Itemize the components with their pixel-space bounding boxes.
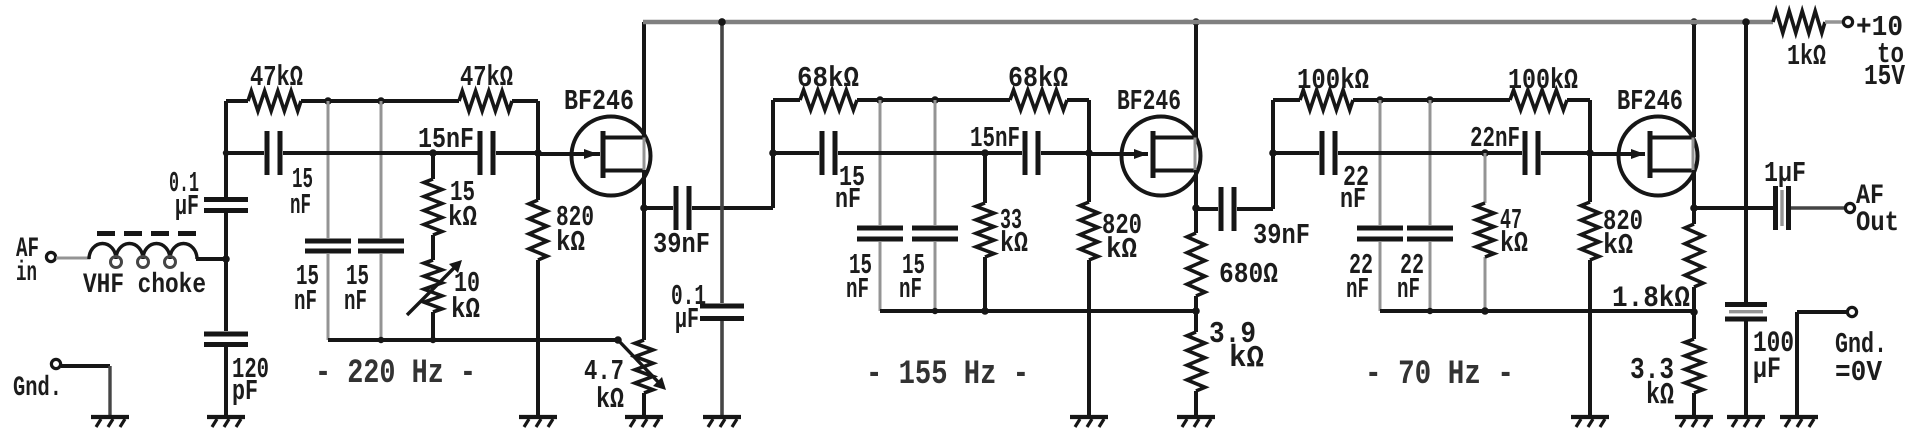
svg-text:µF: µF: [1753, 353, 1781, 387]
wire source1 down: [642, 208, 646, 340]
svg-text:- 155 Hz -: - 155 Hz -: [866, 356, 1029, 394]
capacitor 39nF a: [653, 186, 710, 261]
svg-text:680Ω: 680Ω: [1219, 258, 1278, 291]
wire 39nF b left: [1196, 207, 1218, 211]
label 0.1uF decoupling: [671, 280, 706, 336]
svg-text:Gnd.: Gnd.: [13, 373, 62, 404]
svg-text:- 70 Hz -: - 70 Hz -: [1365, 356, 1514, 394]
capacitor 22nF series a: [1320, 131, 1370, 216]
svg-text:kΩ: kΩ: [1603, 229, 1633, 262]
node rail3 b: [1426, 96, 1434, 104]
node 47k bottom: [1481, 307, 1489, 315]
wire 820k stage3: [1588, 100, 1592, 415]
capacitor 120pF: [204, 332, 248, 348]
capacitor 1uF: [1764, 157, 1806, 230]
node rail2 b: [931, 96, 939, 104]
label -155Hz-: [866, 356, 1029, 394]
wire gate1: [538, 152, 600, 156]
capacitor 100uF: [1725, 302, 1767, 322]
node 33k top: [981, 149, 989, 157]
svg-text:15V: 15V: [1864, 60, 1905, 93]
resistor 47k b: [459, 61, 513, 111]
capacitor 15nF shunt a: [305, 239, 351, 254]
ground 120pF: [207, 417, 245, 427]
ground 820k stage2: [1070, 417, 1108, 427]
stage2 bottom rail: [880, 308, 1196, 314]
svg-text:nF: nF: [835, 183, 861, 216]
wire shunt branch1 b: [380, 101, 383, 340]
label Gnd =0V: [1835, 328, 1887, 389]
svg-text:kΩ: kΩ: [451, 293, 480, 326]
label 22nF shunt a: [1346, 249, 1373, 306]
svg-text:kΩ: kΩ: [1229, 341, 1264, 376]
wire gnd terminal: [61, 366, 110, 415]
node 680 bottom: [1192, 307, 1200, 315]
wire gnd 0V: [1797, 312, 1847, 415]
node rail1 b: [377, 97, 385, 105]
svg-text:nF: nF: [294, 285, 317, 318]
wire 33k branch: [983, 153, 987, 311]
node gate2: [1085, 149, 1093, 157]
resistor 47k shunt: [1476, 203, 1528, 260]
node rail3 a: [1376, 96, 1384, 104]
wire shunt branch1 a: [327, 101, 330, 340]
capacitor 0.1uF input: [204, 197, 248, 213]
svg-text:kΩ: kΩ: [596, 383, 624, 416]
node drain2 rail: [1192, 18, 1200, 26]
svg-text:1µF: 1µF: [1764, 157, 1806, 190]
svg-text:15nF: 15nF: [418, 123, 474, 156]
ground 4.7k: [625, 417, 663, 427]
stage2 signal wire: [773, 151, 1089, 155]
capacitor 15nF shunt d: [912, 226, 958, 242]
label AF Out: [1856, 181, 1899, 239]
stage2 top rail: [773, 98, 1089, 102]
svg-text:1.8kΩ: 1.8kΩ: [1612, 282, 1690, 316]
capacitor 15nF series d: [970, 122, 1041, 175]
svg-text:15nF: 15nF: [970, 122, 1020, 155]
resistor 100k a: [1297, 64, 1369, 110]
label 15nF shunt a: [294, 260, 319, 318]
ground 820k stage1: [519, 417, 557, 427]
label BF246 Q2: [1117, 85, 1181, 118]
capacitor 15nF series a: [265, 131, 314, 222]
ground 100uF: [1727, 417, 1765, 427]
resistor 1k: [1773, 11, 1843, 73]
capacitor 39nF b: [1219, 187, 1311, 252]
label -220Hz-: [315, 355, 476, 393]
svg-text:nF: nF: [344, 285, 367, 318]
resistor 820k stage1: [529, 200, 594, 260]
node source1: [640, 204, 648, 212]
supply rail: [643, 20, 1773, 24]
label -70Hz-: [1365, 356, 1514, 394]
node choke junction: [222, 150, 230, 263]
svg-text:68kΩ: 68kΩ: [1008, 62, 1068, 95]
label BF246 Q3: [1617, 85, 1683, 118]
wire riser stage3: [1269, 100, 1277, 209]
svg-text:39nF: 39nF: [1253, 219, 1310, 252]
resistor 15k: [424, 176, 477, 235]
svg-text:nF: nF: [899, 273, 922, 306]
ground 3.9k: [1177, 417, 1215, 427]
node decoupling top: [718, 18, 726, 26]
label VHF choke: [83, 270, 206, 301]
resistor 47k a: [248, 61, 303, 111]
svg-text:=0V: =0V: [1835, 356, 1883, 389]
resistor 33k: [976, 203, 1028, 260]
wire riser stage1 input: [224, 101, 228, 415]
wire source2: [1194, 170, 1198, 208]
svg-text:kΩ: kΩ: [1646, 378, 1674, 413]
label 22nF shunt b: [1397, 249, 1424, 306]
svg-text:pF: pF: [232, 375, 258, 408]
wire source1: [642, 170, 646, 208]
Gnd 0V terminal: [1847, 307, 1856, 316]
resistor 820k stage2: [1080, 202, 1142, 266]
node gate1: [534, 149, 542, 157]
label 0.1uF input: [169, 167, 199, 223]
wire 39nF a left: [644, 206, 673, 210]
label +10 to 15V: [1856, 11, 1905, 93]
svg-text:kΩ: kΩ: [1500, 227, 1528, 260]
node drain3 rail: [1690, 18, 1698, 26]
ground decoupling: [703, 417, 741, 427]
wire 1.8k branch: [1692, 208, 1696, 312]
resistor 3.9k: [1187, 311, 1264, 415]
capacitor 15nF shunt c: [857, 226, 903, 242]
svg-text:VHF choke: VHF choke: [83, 270, 206, 301]
resistor 68k a: [797, 62, 859, 110]
svg-text:1kΩ: 1kΩ: [1787, 40, 1826, 73]
wire gate3: [1590, 152, 1645, 156]
wire source3: [1692, 170, 1696, 208]
svg-text:in: in: [16, 258, 37, 289]
wire drain1: [642, 22, 646, 137]
label 15nF shunt c: [846, 249, 872, 306]
resistor 68k b: [1008, 62, 1068, 110]
resistor 820k stage3: [1581, 202, 1643, 262]
node wiper: [614, 336, 622, 344]
resistor 1.8k: [1612, 224, 1703, 316]
svg-text:nF: nF: [1397, 273, 1420, 306]
wire 47k branch: [1484, 153, 1487, 311]
svg-text:nF: nF: [846, 273, 869, 306]
ground input: [91, 417, 129, 427]
svg-text:kΩ: kΩ: [1106, 233, 1137, 266]
inductor VHF choke: [89, 243, 197, 267]
wire 39nF a right: [692, 206, 773, 210]
stage3 bottom rail: [1380, 308, 1694, 314]
wire input to choke: [56, 257, 90, 260]
capacitor 22nF shunt b: [1407, 226, 1453, 242]
wire drain2: [1194, 22, 1198, 137]
transistor Q3 BF246: [1619, 117, 1698, 196]
svg-text:kΩ: kΩ: [448, 201, 477, 234]
label 100uF: [1753, 327, 1794, 387]
svg-text:22nF: 22nF: [1470, 122, 1520, 155]
transistor Q1 BF246: [572, 117, 651, 196]
wire AF out right: [1791, 206, 1845, 209]
wiper arrow 4.7k: [618, 340, 666, 390]
svg-text:µF: µF: [175, 190, 199, 223]
svg-text:BF246: BF246: [564, 85, 634, 118]
Gnd terminal: [13, 359, 62, 404]
AF in terminal: [16, 234, 56, 289]
wire AF out: [1694, 206, 1773, 210]
supply terminal: [1843, 17, 1852, 26]
node 33k bottom: [981, 307, 989, 315]
svg-text:39nF: 39nF: [653, 228, 710, 261]
node 15k top: [429, 149, 437, 157]
stage3 top rail: [1273, 98, 1590, 102]
AF out terminal: [1845, 203, 1854, 212]
node 1.8k bottom: [1690, 308, 1698, 316]
node decoupling rail: [718, 18, 726, 26]
svg-text:Out: Out: [1856, 208, 1899, 239]
node source2: [1192, 204, 1200, 212]
resistor 3.3k: [1630, 312, 1703, 415]
wire 39nF b right: [1237, 207, 1273, 211]
wire gate2: [1089, 152, 1148, 156]
resistor 680: [1187, 233, 1278, 296]
stage1 signal wire: [226, 151, 538, 155]
svg-text:100kΩ: 100kΩ: [1508, 64, 1578, 97]
resistor 100k b: [1508, 64, 1578, 110]
svg-text:BF246: BF246: [1617, 85, 1683, 118]
wire 100uF: [1744, 22, 1748, 415]
wire 15k branch: [431, 153, 435, 340]
ground 0V: [1780, 417, 1818, 427]
svg-text:47kΩ: 47kΩ: [460, 61, 513, 94]
wire 680 branch: [1194, 208, 1198, 311]
wire drain3: [1692, 22, 1696, 137]
capacitor 15nF shunt b: [358, 239, 404, 254]
capacitor 22nF shunt a: [1357, 226, 1403, 242]
svg-text:kΩ: kΩ: [1000, 227, 1028, 260]
svg-text:nF: nF: [290, 189, 311, 222]
wire riser stage2: [769, 100, 777, 208]
svg-text:kΩ: kΩ: [556, 226, 585, 259]
node gate3: [1586, 149, 1594, 157]
svg-text:47kΩ: 47kΩ: [250, 61, 303, 94]
wire decoupling: [720, 22, 724, 415]
stage1 bottom rail: [328, 337, 618, 343]
resistor 10k variable: [407, 260, 480, 326]
capacitor 22nF series b: [1470, 122, 1541, 175]
svg-text:- 220 Hz -: - 220 Hz -: [315, 355, 476, 393]
svg-text:BF246: BF246: [1117, 85, 1181, 118]
capacitor 15nF series c: [820, 131, 866, 216]
wire shunt branch2 b: [934, 100, 937, 311]
stage3 signal wire: [1273, 151, 1590, 155]
svg-text:nF: nF: [1346, 273, 1369, 306]
choke core dashes: [97, 231, 196, 236]
wire 820k stage2: [1087, 100, 1091, 415]
wire shunt branch3 b: [1429, 100, 1432, 311]
wire shunt branch3 a: [1379, 100, 1382, 311]
capacitor 15nF series b: [418, 123, 496, 175]
label 15nF shunt d: [899, 249, 925, 306]
wire shunt branch2 a: [879, 100, 882, 311]
transistor Q2 BF246: [1122, 117, 1201, 196]
ground 820k stage3: [1571, 417, 1609, 427]
svg-text:100kΩ: 100kΩ: [1297, 64, 1369, 97]
node 47k top: [1481, 149, 1489, 157]
svg-text:nF: nF: [1340, 183, 1366, 216]
ground 3.3k: [1675, 417, 1713, 427]
node 100uF rail: [1742, 18, 1750, 26]
label 120pF: [232, 353, 269, 408]
resistor 4.7k pot: [584, 340, 653, 416]
wire choke to node: [196, 257, 226, 261]
label BF246 Q1: [564, 85, 634, 118]
node rail2 a: [876, 96, 884, 104]
node rail1 a: [324, 97, 332, 105]
svg-text:68kΩ: 68kΩ: [797, 62, 859, 95]
capacitor 0.1uF decoupling: [700, 304, 744, 322]
wire 820k stage1: [536, 101, 540, 415]
stage1 top rail: [226, 99, 538, 103]
svg-text:µF: µF: [675, 303, 699, 336]
node source3: [1690, 204, 1698, 212]
label 15nF shunt b: [344, 260, 369, 318]
